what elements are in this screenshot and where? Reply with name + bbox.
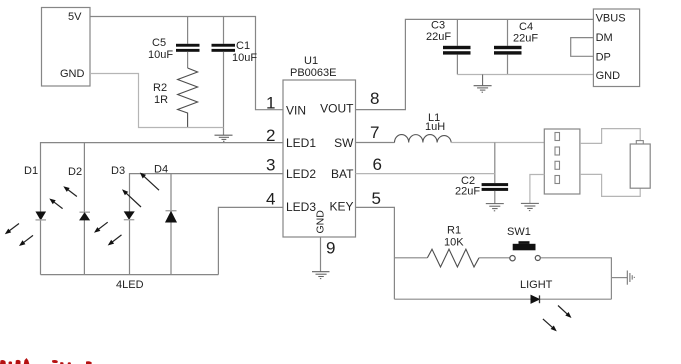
ground (below connector): [521, 203, 539, 210]
wire switch to right rail: [540, 258, 611, 299]
wire U1 pin9 to ground: [320, 237, 322, 272]
svg-text:10uF: 10uF: [148, 49, 173, 61]
svg-text:LED2: LED2: [286, 167, 316, 181]
svg-text:VOUT: VOUT: [320, 102, 354, 116]
ground (below U1): [312, 272, 330, 279]
wire BAT (pin6) to C2 node: [356, 173, 495, 175]
svg-text:1R: 1R: [154, 94, 168, 106]
svg-text:SW: SW: [334, 136, 354, 150]
wire bottom LIGHT loop: [394, 298, 611, 300]
svg-text:4LED: 4LED: [116, 279, 144, 291]
wire VOUT (pin8) to VBUS: [356, 19, 594, 109]
wire SW (pin7) to L1: [356, 142, 395, 144]
wire R1 to switch: [479, 257, 510, 259]
wire L1 to battery connector: [451, 142, 544, 144]
svg-text:LIGHT: LIGHT: [520, 279, 553, 291]
svg-text:10K: 10K: [444, 237, 464, 249]
capacitor C1: [212, 17, 258, 136]
LED D4: [122, 164, 177, 223]
ground (rotated, right): [627, 271, 634, 285]
svg-text:R2: R2: [153, 82, 167, 94]
D1 emission arrows: [9, 224, 19, 231]
inductor L1: [395, 112, 452, 143]
svg-text:GND: GND: [315, 210, 327, 234]
USB connector VBUS box: [593, 9, 639, 87]
battery cell: [630, 141, 650, 189]
capacitor C4: [494, 19, 538, 75]
svg-text:DP: DP: [596, 52, 611, 64]
svg-text:GND: GND: [60, 68, 85, 80]
svg-text:9: 9: [326, 239, 335, 258]
LED D1: [5, 165, 46, 246]
red handwriting marks (cut off at bottom): [0, 358, 92, 364]
resistor R2: [153, 68, 198, 128]
svg-text:D2: D2: [68, 166, 82, 178]
capacitor C5: [148, 17, 200, 69]
svg-text:D1: D1: [24, 165, 38, 177]
svg-text:22uF: 22uF: [455, 186, 480, 198]
svg-text:C4: C4: [519, 21, 533, 33]
DM/DP bracket: [571, 38, 594, 57]
ground (below C1): [215, 135, 233, 141]
svg-text:1uH: 1uH: [425, 121, 445, 133]
wire ground stub: [611, 277, 627, 279]
D4 emission arrows: [126, 193, 141, 207]
svg-text:KEY: KEY: [329, 200, 353, 214]
svg-text:6: 6: [373, 155, 382, 174]
wire LED3 net (pin4): [218, 207, 283, 274]
op-amp/IC U1 PB0063E: [266, 55, 382, 258]
svg-text:BAT: BAT: [331, 167, 354, 181]
svg-text:C3: C3: [431, 20, 445, 32]
svg-text:10uF: 10uF: [232, 52, 257, 64]
power connector 5V box: [42, 8, 91, 87]
svg-text:VBUS: VBUS: [596, 13, 626, 25]
svg-text:22uF: 22uF: [426, 31, 451, 43]
wire connector to battery top: [580, 129, 640, 144]
wire D4 column: [170, 174, 172, 275]
wire connector to ground: [530, 175, 544, 204]
resistor R1: [427, 225, 479, 268]
svg-text:LED3: LED3: [286, 200, 316, 214]
wire LED2 net (pin3): [130, 174, 284, 275]
D3 emission arrows: [98, 222, 107, 229]
wire connector to battery bottom: [580, 174, 640, 196]
svg-text:4: 4: [266, 190, 275, 209]
wire LED1 net (pin2): [41, 143, 284, 275]
svg-text:SW1: SW1: [507, 226, 531, 238]
svg-text:LED1: LED1: [286, 136, 316, 150]
svg-text:U1: U1: [304, 55, 318, 67]
capacitor C2: [455, 143, 508, 204]
wire 5V rail to VIN: [90, 17, 283, 110]
capacitor C3: [426, 19, 471, 74]
LED LIGHT diode: [531, 295, 572, 331]
wire bottom LED bus: [41, 274, 219, 276]
wire GND from power box: [90, 74, 224, 128]
ground (below C2): [486, 204, 504, 211]
wire KEY (pin5) down: [356, 207, 395, 299]
svg-text:5V: 5V: [68, 11, 82, 23]
svg-text:22uF: 22uF: [513, 33, 538, 45]
svg-text:8: 8: [370, 89, 379, 108]
wire D2 column: [83, 143, 85, 275]
svg-text:1: 1: [266, 94, 275, 113]
wire C3/C4 ground rail to VBUS GND: [457, 74, 593, 76]
svg-text:C1: C1: [236, 40, 250, 52]
svg-text:VIN: VIN: [286, 104, 306, 118]
LIGHT emission arrows: [558, 306, 568, 315]
ground (below C3/C4): [474, 75, 492, 93]
wire to R1: [394, 257, 427, 259]
D2 emission arrows: [54, 202, 63, 209]
svg-text:GND: GND: [596, 70, 621, 82]
svg-text:PB0063E: PB0063E: [290, 67, 336, 79]
svg-text:C5: C5: [152, 37, 166, 49]
svg-text:5: 5: [372, 189, 381, 208]
svg-text:D3: D3: [111, 165, 125, 177]
switch SW1: [507, 226, 540, 261]
LED D2: [49, 166, 90, 220]
svg-text:R1: R1: [447, 225, 461, 237]
svg-text:D4: D4: [154, 164, 168, 176]
svg-text:3: 3: [266, 156, 275, 175]
battery connector box: [544, 129, 580, 194]
svg-text:DM: DM: [596, 32, 613, 44]
LED D3: [94, 165, 134, 246]
svg-text:7: 7: [370, 123, 379, 142]
